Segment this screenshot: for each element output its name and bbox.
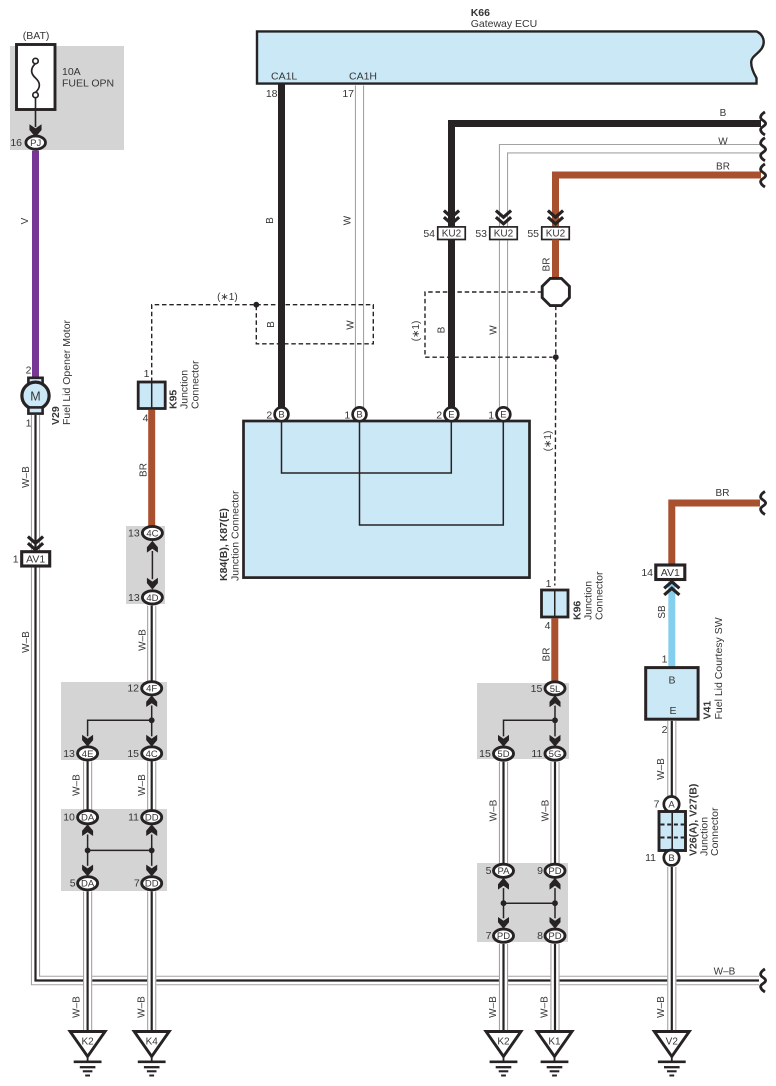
wire end squiggle W [761,138,766,161]
label 17 [342,88,354,100]
label (*1) near K96 [543,431,554,452]
wire BR K96 to 5L [551,618,558,682]
label V29 [50,406,62,425]
label W right [718,137,728,148]
label BR right branch [716,488,730,499]
svg-text:W–B: W–B [714,966,736,977]
svg-text:7: 7 [134,878,140,890]
svg-text:DD: DD [145,879,159,890]
wire W-B DD to ground [147,892,156,1032]
svg-text:V29: V29 [50,406,62,425]
svg-text:PD: PD [548,931,561,942]
wire SB AV1 to V41 [668,581,675,668]
svg-text:14: 14 [641,567,653,579]
label K96 [571,601,583,620]
label W-B V41 [656,758,667,780]
wire BR from right [556,175,762,227]
label B in dashed box [266,321,277,328]
svg-text:13: 13 [128,592,140,604]
arrow chevrons into AV1 [28,537,43,550]
svg-text:Connector: Connector [189,360,201,409]
label W CA1H [343,215,354,225]
arrow chevrons into 54 KU2 [444,211,459,224]
label W-B bottom [714,966,736,977]
arrow down PD7 [498,917,509,929]
svg-text:KU2: KU2 [442,229,462,240]
label W-B V2 [656,996,667,1018]
label SB [657,605,668,619]
ground K2 mid [486,1032,521,1076]
wire B CA1L [278,84,285,408]
svg-text:10: 10 [63,812,75,824]
svg-text:KU2: KU2 [494,229,514,240]
wire end squiggle bottom right [761,969,766,992]
label Connector V26 [709,807,721,856]
svg-text:11: 11 [531,748,542,760]
svg-text:8: 8 [537,930,543,942]
svg-text:W–B: W–B [21,466,32,488]
splice dot PD [552,900,558,906]
shaded area connector PA-PD [477,863,568,942]
svg-text:1: 1 [26,418,32,430]
dashed box (*1) right [425,292,556,357]
wire BR right branch [672,503,760,565]
label Junction K95 [178,370,190,409]
label W-B 4D [138,629,149,651]
noise filter octagon [542,278,569,305]
connector 54 KU2 [423,227,465,240]
svg-text:W–B: W–B [541,799,552,821]
splice dot PA [501,900,507,906]
pin 7 A [654,797,680,812]
svg-text:PD: PD [548,866,561,877]
label Junction V26 [699,817,711,856]
svg-text:B: B [356,410,362,421]
arrow down 5G [550,735,561,747]
label W-B DD low [137,996,148,1018]
arrow up PD [550,878,561,890]
splice dot left [253,302,259,308]
svg-text:K84(B), K87(E): K84(B), K87(E) [218,508,230,581]
arrow down PD8 [550,917,561,929]
arrow chevrons from AV1 [664,582,679,595]
svg-text:2: 2 [266,409,272,421]
wire W CA1H [355,85,364,407]
svg-text:B: B [720,108,727,119]
connector 13 4E [63,747,97,760]
svg-text:5D: 5D [497,749,509,760]
svg-text:1: 1 [13,554,19,566]
wire BR to noise filter [552,240,559,280]
wire W-B 4D to 4F [147,606,156,682]
arrow into PJ [29,124,41,137]
junction connector K84(B) K87(E) [244,421,530,578]
connector 13 4C [128,526,162,539]
svg-text:4C: 4C [146,749,158,760]
svg-text:CA1L: CA1L [271,70,297,82]
svg-text:(BAT): (BAT) [23,30,50,42]
svg-text:12: 12 [127,683,139,695]
connector 9 PD [537,864,565,877]
connector 15 5L [531,682,565,695]
label K84(B) K87(E) [218,508,230,581]
svg-text:4D: 4D [146,593,158,604]
connector 15 5D [479,747,513,760]
svg-text:(∗1): (∗1) [411,321,422,342]
connector 14 AV1 [641,565,684,580]
label W in dashed box [346,320,357,330]
svg-text:W–B: W–B [539,996,550,1018]
svg-text:15: 15 [479,748,491,760]
label BR K95 [139,463,150,477]
svg-text:4C: 4C [146,528,158,539]
wire fuse to PJ [35,98,37,127]
svg-text:BR: BR [542,648,553,662]
svg-text:Fuel Lid Opener Motor: Fuel Lid Opener Motor [61,319,73,425]
dashed line K95 to splice [152,305,254,382]
svg-text:CA1H: CA1H [349,70,377,82]
svg-text:55: 55 [527,228,539,240]
label Connector K96 [593,571,605,620]
svg-text:(∗1): (∗1) [543,431,554,452]
shaded area connector 5L-5D-5G [477,683,569,759]
svg-text:1: 1 [546,578,552,590]
svg-text:DD: DD [145,813,159,824]
ground V2 [654,1032,689,1076]
shaded area connector 4C-4D [126,526,165,604]
junction connector V26(A) V27(B) [659,812,686,851]
label W-B [21,466,32,488]
label V41 [701,701,713,720]
svg-text:W: W [718,137,728,148]
svg-text:2: 2 [662,724,668,736]
connector 7 DD [134,877,162,890]
shaded area connector 4F-4E-4C [61,682,167,760]
svg-text:7: 7 [654,799,660,811]
label BR above filter [541,258,552,272]
svg-text:AV1: AV1 [661,567,680,579]
arrow up 4F [146,695,157,707]
splice dot 5L [552,717,558,723]
svg-text:7: 7 [486,930,492,942]
svg-text:Junction Connector: Junction Connector [229,490,241,581]
svg-text:1: 1 [144,368,150,380]
label B in right dashed box [437,326,448,333]
svg-text:17: 17 [342,88,354,100]
connector 15 4C [127,747,161,760]
svg-text:AV1: AV1 [26,554,45,566]
wire W-B V41 to A [667,721,676,797]
wire W-B B to ground V2 [667,867,676,1032]
wire W-B 5D to PA [499,762,508,865]
pin 1 B [344,407,366,421]
svg-text:W–B: W–B [656,758,667,780]
wire W-B DA to ground [83,892,92,1032]
label W-B PD7 low [488,996,499,1018]
junction connector K95 [138,368,165,424]
svg-text:V41: V41 [701,701,713,720]
wire B to E2 [448,240,455,408]
label 18 [266,88,278,100]
connector 11 DD [128,811,162,824]
svg-text:K1: K1 [548,1037,561,1048]
svg-text:KU2: KU2 [546,229,566,240]
branch lines 4F [88,706,152,737]
svg-text:B: B [278,410,284,421]
arrow down DD7 [146,865,157,877]
connector 16 PJ [10,136,45,149]
svg-text:BR: BR [139,463,150,477]
arrow down 4D [147,578,158,590]
svg-text:W: W [343,215,354,225]
connector 5 DA [70,877,98,890]
label Fuel Lid Opener Motor [61,319,73,425]
svg-text:W–B: W–B [137,996,148,1018]
pin 11 B [645,850,679,865]
dashed box (*1) left [256,305,373,344]
label V [20,217,31,224]
label K95 [167,390,179,409]
svg-text:4E: 4E [82,749,94,760]
arrow down 5D [498,735,509,747]
svg-text:W–B: W–B [137,774,148,796]
svg-text:Gateway ECU: Gateway ECU [471,18,538,30]
svg-text:13: 13 [63,748,75,760]
label W-B 4E [72,774,83,796]
label W-B PD8 low [539,996,550,1018]
svg-text:W–B: W–B [138,629,149,651]
switch V41 Fuel Lid Courtesy SW [646,668,698,720]
svg-text:DA: DA [81,813,95,824]
svg-text:V2: V2 [666,1037,679,1048]
svg-text:A: A [668,800,675,811]
wire end squiggle BR right [761,492,766,515]
label V26(A) V27(B) [688,784,700,856]
label Connector K95 [189,360,201,409]
svg-text:5: 5 [70,878,76,890]
arrow chevrons into 55 KU2 [548,211,563,224]
label (*1) left [217,292,238,303]
svg-text:K2: K2 [497,1037,510,1048]
svg-text:BR: BR [541,258,552,272]
motor V29 Fuel Lid Opener Motor [22,365,49,430]
svg-text:B: B [437,326,448,333]
pin 1 E [488,407,510,421]
wire W-B 4E to DA [83,762,92,811]
svg-text:5L: 5L [550,684,561,695]
connector 13 4D [128,591,162,604]
label W-B 5D [488,799,499,821]
svg-text:B: B [266,321,277,328]
connector 10 DA [63,811,97,824]
label W-B 5G [541,799,552,821]
connector 12 4F [127,682,161,695]
svg-text:1: 1 [488,409,494,421]
svg-text:(∗1): (∗1) [217,292,238,303]
splice dot 4F [149,717,155,723]
arrow up PA [498,878,509,890]
pin 2 B [266,407,288,421]
connector 53 KU2 [475,227,517,240]
wire W to E1 [499,241,508,408]
label W-B 4C [137,774,148,796]
svg-text:K66: K66 [471,7,490,19]
svg-text:W: W [489,325,500,335]
splice dot right [553,354,559,360]
connector 8 PD [537,929,565,942]
svg-text:5G: 5G [549,749,562,760]
svg-text:W–B: W–B [72,774,83,796]
svg-text:15: 15 [127,748,139,760]
wire W-B 4C to DD [147,762,156,811]
fuse 10A FUEL OPN [17,30,115,110]
wire W-B motor to AV1 [31,415,40,552]
label B CA1L [265,217,276,224]
ground K4 [134,1032,169,1076]
branch lines 5L [504,706,556,737]
arrow up 5L [550,695,561,707]
label B right [720,108,727,119]
wire W-B from AV1 to bottom bus [31,566,760,985]
shaded area connector DA-DD [61,809,167,891]
svg-text:18: 18 [266,88,278,100]
svg-text:10A: 10A [62,66,81,78]
wire W-B PD8 to ground [550,944,559,1032]
arrow up DD [146,824,157,836]
gateway ECU K66 [257,7,764,84]
label BR right [716,161,730,172]
svg-text:FUEL OPN: FUEL OPN [62,78,114,90]
dashed line to K96 [555,357,556,585]
wire W from right [499,145,761,227]
label W-B DA low [72,996,83,1018]
svg-text:K4: K4 [146,1037,159,1048]
connector 1 AV1 [13,552,50,566]
svg-text:54: 54 [423,228,435,240]
svg-text:1: 1 [662,654,668,666]
ground K2 left [70,1032,105,1076]
svg-text:W: W [346,320,357,330]
splice dot DA [85,848,91,854]
junction connector K96 [542,578,569,632]
arrow down 4C15 [146,735,157,747]
label pin 2 V41 [662,724,668,736]
wire B from K66 right [452,124,762,227]
connector 11 5G [531,747,565,760]
svg-text:2: 2 [26,365,32,377]
wire W-B PD7 to ground [499,944,508,1032]
svg-text:PD: PD [497,931,510,942]
wire V [32,151,39,379]
wire end squiggle BR [761,164,766,187]
svg-text:11: 11 [128,812,139,824]
svg-text:2: 2 [436,409,442,421]
svg-text:E: E [448,410,454,421]
svg-text:15: 15 [531,683,543,695]
label Junction Connector K84 [229,490,241,581]
arrow chevrons into 53 KU2 [496,211,511,224]
label W-B below AV1 [21,631,32,653]
arrow down DA5 [82,865,93,877]
svg-text:4: 4 [545,620,551,632]
arrow up 4C [147,541,158,553]
svg-text:4: 4 [143,413,149,425]
connector 7 PD [486,929,514,942]
connector 5 PA [486,864,514,877]
svg-text:SB: SB [657,605,668,619]
label Fuel Lid Courtesy SW [713,617,725,719]
svg-text:W–B: W–B [21,631,32,653]
wire W-B 5G to PD [550,762,559,865]
label BR K96 [542,648,553,662]
svg-text:W–B: W–B [488,996,499,1018]
svg-text:B: B [265,217,276,224]
svg-text:PA: PA [498,866,511,877]
svg-text:13: 13 [128,527,140,539]
label pin 1 V41 [662,654,668,666]
svg-text:M: M [30,389,40,403]
svg-text:16: 16 [10,137,22,149]
svg-text:4F: 4F [146,684,157,695]
arrow up DA [82,824,93,836]
label Junction K96 [582,581,594,620]
ground K1 [537,1032,572,1076]
svg-text:53: 53 [475,228,487,240]
pin 2 E [436,407,458,421]
svg-text:9: 9 [537,865,543,877]
arrow down 4E [82,735,93,747]
svg-text:DA: DA [81,879,95,890]
svg-text:W–B: W–B [72,996,83,1018]
svg-text:Connector: Connector [593,571,605,620]
connector 55 KU2 [527,227,569,240]
svg-text:PJ: PJ [30,138,41,149]
branch lines DA DD [88,835,152,866]
svg-text:1: 1 [344,409,350,421]
label (*1) right [411,321,422,342]
svg-text:Fuel Lid Courtesy SW: Fuel Lid Courtesy SW [713,617,725,719]
svg-text:V: V [20,217,31,224]
svg-text:11: 11 [645,852,656,864]
svg-text:5: 5 [486,865,492,877]
svg-text:B: B [668,674,675,686]
splice dot DD [149,848,155,854]
svg-text:E: E [669,705,676,717]
svg-text:BR: BR [716,161,730,172]
wire BR K95 to 4C [148,410,155,527]
wire end squiggle B [761,112,766,135]
svg-text:B: B [668,853,674,864]
shaded area fuse block [10,46,124,150]
svg-text:Connector: Connector [709,807,721,856]
svg-text:K2: K2 [81,1037,94,1048]
svg-text:BR: BR [716,488,730,499]
svg-text:W–B: W–B [656,996,667,1018]
wire 4C to 4D [151,551,153,579]
branch lines PA PD [504,888,556,918]
svg-text:E: E [500,410,506,421]
svg-text:W–B: W–B [488,799,499,821]
label W in right dashed box [489,325,500,335]
